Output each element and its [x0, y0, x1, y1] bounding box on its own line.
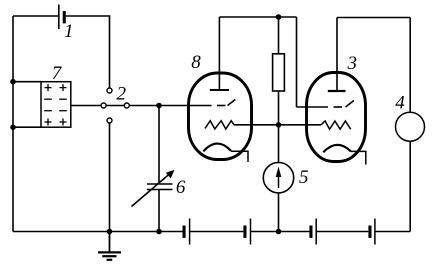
- wire down to switch contact A: [109, 16, 111, 91]
- tube 8 anode plate: [210, 89, 229, 91]
- variable capacitor 6 arrow: [132, 174, 171, 207]
- switch 2 contacts: [101, 88, 129, 123]
- wire box7 bottom connection: [13, 126, 41, 128]
- battery B1 thick plate: [63, 11, 66, 23]
- tube 8 envelope: [189, 73, 252, 160]
- battery cell bottom 3 thick: [309, 226, 312, 238]
- svg-text:1: 1: [64, 21, 74, 42]
- thermopile box 7: [41, 82, 71, 128]
- wire switch line box7 to grid junction: [71, 105, 159, 107]
- wire top right segment: [337, 17, 410, 19]
- wire resistor bottom lead: [278, 91, 280, 125]
- ground: [98, 232, 121, 260]
- battery B1 thin plate: [58, 5, 60, 30]
- wire bottom bus segment 3: [251, 231, 310, 233]
- svg-text:2: 2: [117, 84, 127, 105]
- battery cell bottom 4 thick: [368, 226, 371, 238]
- wire bottom bus segment 4: [316, 231, 368, 233]
- tube 3 filament zigzag: [321, 121, 351, 129]
- svg-text:4: 4: [395, 93, 405, 114]
- wire bottom bus segment 2: [190, 231, 244, 233]
- junction dot box7 top: [10, 79, 16, 85]
- junction dot box7 bottom: [10, 124, 16, 130]
- tube 3 cathode stub: [351, 151, 366, 164]
- meter 5: [263, 163, 293, 193]
- svg-text:8: 8: [191, 52, 201, 73]
- tube 3 anode plate: [328, 90, 346, 92]
- junction dot capacitor bottom: [156, 229, 162, 235]
- wire switch contact D down to ground bus: [109, 121, 111, 232]
- tube 3 grid dash: [334, 106, 343, 108]
- tube 8 grid hook: [228, 100, 236, 106]
- wire box7 top connection: [13, 81, 41, 83]
- svg-text:3: 3: [347, 53, 358, 74]
- tube 8 filament zigzag: [205, 121, 234, 129]
- junction dot grid node: [156, 103, 162, 109]
- svg-text:5: 5: [299, 167, 309, 188]
- junction dot resistor top: [276, 14, 282, 20]
- tube 8 grid dash: [217, 105, 225, 107]
- junction dot filament node: [276, 122, 282, 128]
- tube 3 cathode arc: [323, 145, 351, 152]
- wire grid tube 3 feed horizontal: [297, 106, 329, 108]
- junction dot ground node: [107, 229, 113, 235]
- wire bottom bus segment 5: [375, 231, 410, 233]
- wire capacitor branch lower: [158, 190, 160, 232]
- meter 4: [396, 112, 425, 141]
- resistor R: [273, 54, 285, 91]
- wire resistor top lead: [278, 17, 280, 54]
- wire battery 1 to top corner: [66, 15, 111, 17]
- svg-text:7: 7: [52, 63, 63, 84]
- wire anode tube 8 lead: [218, 17, 220, 90]
- wire top middle anode to corner: [219, 16, 296, 18]
- variable capacitor 6 plates: [132, 174, 173, 207]
- tube 8 cathode arc: [203, 144, 231, 152]
- wire bottom bus segment 1: [13, 231, 183, 233]
- battery cell bottom 3 thin: [315, 219, 317, 245]
- tube 3 envelope: [307, 73, 366, 162]
- wire anode tube 3 lead: [336, 18, 338, 92]
- battery cell bottom 2 thick: [243, 226, 246, 238]
- battery cell bottom 2 thin: [250, 219, 252, 245]
- wire grid tube 3 feed vertical: [296, 17, 298, 107]
- wire filament link tube8 to tube3: [234, 124, 321, 126]
- battery cell bottom 1 thin: [189, 219, 191, 245]
- wire grid tube 8 entry: [159, 105, 212, 107]
- battery cell bottom 1 thick: [183, 226, 186, 238]
- junction dot meter5 bottom: [276, 229, 282, 235]
- tube 3 grid hook: [346, 101, 354, 108]
- battery cell bottom 4 thin: [374, 219, 376, 245]
- wire capacitor branch upper: [158, 106, 160, 185]
- svg-text:6: 6: [176, 177, 186, 198]
- wire top-left to battery 1: [13, 15, 59, 17]
- tube 8 cathode stub: [231, 151, 248, 162]
- wire left vertical bus: [12, 16, 14, 232]
- wire meter 5 vertical: [278, 125, 280, 232]
- wire right vertical through meter 4: [409, 18, 411, 232]
